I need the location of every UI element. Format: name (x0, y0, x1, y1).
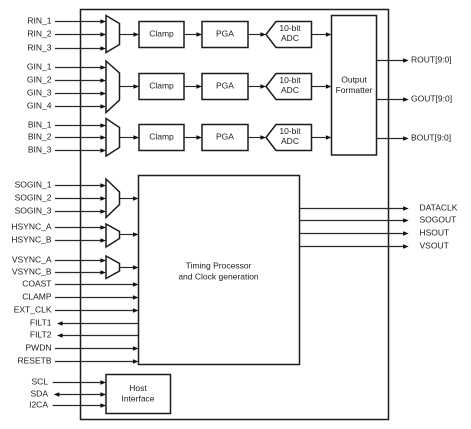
svg-text:SOGIN_3: SOGIN_3 (15, 205, 52, 215)
wire B clamp to PGA (184, 135, 202, 140)
svg-text:DATACLK: DATACLK (420, 202, 458, 212)
wire RIN_3 (55, 46, 106, 51)
svg-text:GIN_3: GIN_3 (27, 87, 52, 97)
svg-text:SOGOUT: SOGOUT (420, 214, 457, 224)
svg-text:HSYNC_A: HSYNC_A (11, 221, 51, 231)
wire BIN_1 (55, 123, 106, 128)
svg-text:VSYNC_A: VSYNC_A (12, 254, 52, 264)
wire R clamp to PGA (184, 32, 202, 37)
10-bit ADC block G (266, 74, 312, 100)
svg-text:RIN_3: RIN_3 (27, 42, 51, 52)
svg-text:Timing Processor: Timing Processor (186, 260, 252, 270)
svg-text:BIN_2: BIN_2 (28, 131, 52, 141)
wire HSYNC mux to timing processor (120, 232, 139, 237)
svg-text:SOGIN_1: SOGIN_1 (15, 179, 52, 189)
wire R PGA to ADC (248, 32, 266, 37)
wire output VSOUT (300, 244, 409, 249)
svg-text:FILT1: FILT1 (30, 317, 52, 327)
wire RIN_2 (55, 32, 106, 37)
wire R ADC to output formatter (312, 32, 332, 37)
svg-text:Formatter: Formatter (336, 85, 373, 95)
svg-text:Clamp: Clamp (149, 80, 174, 90)
svg-text:HSYNC_B: HSYNC_B (11, 234, 51, 244)
svg-text:GOUT[9:0]: GOUT[9:0] (411, 93, 452, 103)
timing processor block (139, 176, 300, 365)
10-bit ADC block B (266, 125, 312, 151)
clamp block G (139, 74, 184, 100)
output formatter block (332, 16, 377, 156)
wire output ROUT[9:0] (377, 58, 409, 63)
wire PWDN (55, 346, 139, 351)
svg-text:ADC: ADC (281, 85, 299, 95)
svg-text:Clamp: Clamp (149, 28, 174, 38)
svg-text:10-bit: 10-bit (279, 75, 301, 85)
svg-text:EXT_CLK: EXT_CLK (14, 304, 52, 314)
clamp block R (139, 22, 184, 48)
svg-text:PGA: PGA (216, 131, 234, 141)
wire B mux to clamp (120, 135, 140, 140)
wire GIN_3 (55, 91, 106, 96)
svg-text:10-bit: 10-bit (279, 126, 301, 136)
mux U3 blue input (106, 119, 120, 157)
svg-text:GIN_2: GIN_2 (27, 74, 52, 84)
PGA block B (202, 125, 248, 151)
host interface block (106, 375, 171, 414)
wire RIN_1 (55, 19, 106, 24)
wire CLAMP (55, 295, 139, 300)
svg-text:RESETB: RESETB (17, 355, 51, 365)
svg-text:GIN_4: GIN_4 (27, 100, 52, 110)
svg-text:VSOUT: VSOUT (420, 240, 449, 250)
svg-text:ADC: ADC (281, 136, 299, 146)
wire SOGIN_1 (55, 183, 106, 188)
svg-text:PGA: PGA (216, 80, 234, 90)
wire GIN_4 (55, 104, 106, 109)
svg-text:VSYNC_B: VSYNC_B (12, 266, 52, 276)
wire G clamp to PGA (184, 84, 202, 89)
svg-text:RIN_2: RIN_2 (27, 28, 51, 38)
mux U1 red input (106, 16, 120, 53)
wire B ADC to output formatter (312, 135, 332, 140)
wire SDA bidirectional (54, 392, 106, 397)
wire B PGA to ADC (248, 135, 266, 140)
svg-text:COAST: COAST (22, 278, 51, 288)
svg-text:SOGIN_2: SOGIN_2 (15, 192, 52, 202)
wire output HSOUT (300, 231, 409, 236)
wire SOGIN_3 (55, 209, 106, 214)
wire EXT_CLK (55, 308, 139, 313)
svg-text:BOUT[9:0]: BOUT[9:0] (411, 132, 451, 142)
wire GIN_1 (55, 65, 106, 70)
PGA block G (202, 74, 248, 100)
svg-text:HSOUT: HSOUT (420, 227, 450, 237)
wire output DATACLK (300, 206, 409, 211)
svg-text:Interface: Interface (121, 393, 154, 403)
svg-text:Host: Host (129, 383, 147, 393)
wire G mux to clamp (120, 84, 140, 89)
svg-text:ROUT[9:0]: ROUT[9:0] (411, 54, 452, 64)
wire VSYNC_A (55, 258, 106, 263)
wire SCL (53, 380, 106, 385)
mux U5 HSYNC input (106, 224, 120, 247)
wire SOGIN_2 (55, 196, 106, 201)
svg-text:PGA: PGA (216, 28, 234, 38)
wire HSYNC_A (55, 225, 106, 230)
wire SOG mux to timing processor (120, 196, 139, 201)
svg-text:I2CA: I2CA (29, 399, 48, 409)
wire HSYNC_B (55, 238, 106, 243)
wire I2CA (53, 403, 106, 408)
svg-text:GIN_1: GIN_1 (27, 61, 52, 71)
svg-text:PWDN: PWDN (26, 342, 52, 352)
svg-text:ADC: ADC (281, 33, 299, 43)
svg-text:SDA: SDA (31, 388, 49, 398)
chip boundary rectangle (81, 10, 389, 420)
svg-text:BIN_3: BIN_3 (28, 144, 52, 154)
PGA block R (202, 22, 248, 48)
wire R mux to clamp (120, 32, 140, 37)
wire BIN_3 (55, 148, 106, 153)
svg-text:and Clock generation: and Clock generation (178, 271, 259, 281)
wire output GOUT[9:0] (377, 97, 409, 102)
svg-text:10-bit: 10-bit (279, 23, 301, 33)
svg-text:BIN_1: BIN_1 (28, 119, 52, 129)
wire output BOUT[9:0] (377, 136, 409, 141)
svg-text:FILT2: FILT2 (30, 329, 52, 339)
wire G PGA to ADC (248, 84, 266, 89)
svg-text:SCL: SCL (31, 376, 48, 386)
mux U6 VSYNC input (106, 256, 120, 279)
wire output SOGOUT (300, 218, 409, 223)
wire RESETB (55, 359, 139, 364)
wire VSYNC mux to timing processor (120, 265, 139, 270)
svg-text:RIN_1: RIN_1 (27, 15, 51, 25)
wire VSYNC_B (55, 270, 106, 275)
clamp block B (139, 125, 184, 151)
svg-text:Clamp: Clamp (149, 131, 174, 141)
svg-text:Output: Output (341, 75, 367, 85)
wire BIN_2 (55, 135, 106, 140)
svg-text:CLAMP: CLAMP (22, 291, 52, 301)
wire FILT1 (57, 321, 139, 326)
mux U2 green input (106, 61, 120, 113)
wire G ADC to output formatter (312, 84, 332, 89)
wire FILT2 (57, 333, 139, 338)
mux U4 SOG input (106, 179, 120, 218)
wire GIN_2 (55, 78, 106, 83)
wire COAST (55, 282, 139, 287)
10-bit ADC block R (266, 22, 312, 48)
